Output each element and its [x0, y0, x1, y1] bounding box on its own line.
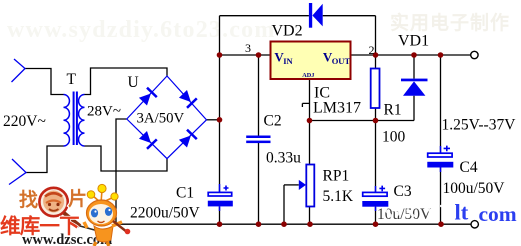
svg-text:100u/50V: 100u/50V — [443, 180, 506, 197]
svg-text:VD2: VD2 — [272, 23, 303, 40]
svg-text:5.1K: 5.1K — [323, 188, 354, 205]
svg-text:T: T — [67, 71, 77, 88]
svg-text:com: com — [479, 202, 517, 226]
svg-text:lt: lt — [455, 200, 469, 225]
svg-text:28V~: 28V~ — [87, 104, 121, 120]
svg-text:C4: C4 — [460, 159, 478, 176]
svg-text:LM317: LM317 — [313, 100, 361, 117]
svg-text:OUT: OUT — [332, 56, 351, 66]
svg-text:实用电子制作: 实用电子制作 — [390, 11, 510, 34]
svg-text:C1: C1 — [176, 185, 194, 202]
svg-text:1.25V--37V: 1.25V--37V — [442, 117, 517, 134]
svg-text:2: 2 — [369, 43, 375, 57]
svg-text:找: 找 — [19, 189, 38, 211]
svg-text:C3: C3 — [394, 183, 412, 200]
svg-text:www.sydzdiy.6to23.com: www.sydzdiy.6to23.com — [7, 17, 276, 43]
svg-text:100: 100 — [382, 129, 406, 146]
svg-text:RP1: RP1 — [323, 168, 350, 185]
svg-text:R1: R1 — [384, 102, 402, 119]
svg-text:C2: C2 — [264, 113, 282, 130]
svg-text:3A/50V: 3A/50V — [137, 111, 185, 127]
svg-text:220V~: 220V~ — [3, 113, 46, 130]
svg-text:IN: IN — [283, 56, 293, 66]
svg-text:3: 3 — [245, 41, 251, 55]
svg-text:片: 片 — [68, 187, 87, 210]
svg-text:ADJ: ADJ — [302, 72, 314, 79]
svg-text:2200u/50V: 2200u/50V — [130, 205, 201, 222]
svg-text:0.33u: 0.33u — [266, 150, 301, 167]
svg-text:U: U — [128, 74, 139, 91]
svg-text:VD1: VD1 — [398, 33, 429, 50]
